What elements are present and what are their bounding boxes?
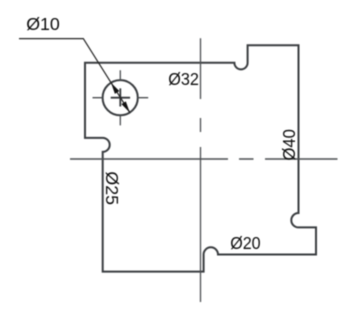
hole center mark cross — [111, 88, 130, 106]
arrowhead upper-left — [111, 83, 119, 94]
svg-text:Ø25: Ø25 — [102, 171, 122, 205]
svg-text:Ø32: Ø32 — [168, 69, 199, 89]
svg-text:Ø20: Ø20 — [230, 233, 260, 253]
svg-text:Ø10: Ø10 — [26, 14, 60, 34]
horizontal centerline — [70, 158, 338, 160]
svg-text:Ø40: Ø40 — [279, 129, 299, 161]
arrowhead lower-right — [121, 101, 129, 112]
part outline — [85, 45, 316, 271]
vertical centerline — [200, 38, 202, 302]
leader line for Ø10 dimension — [19, 39, 130, 113]
hole circle Ø10 — [103, 80, 138, 115]
hole crosshair centerlines — [93, 70, 149, 125]
